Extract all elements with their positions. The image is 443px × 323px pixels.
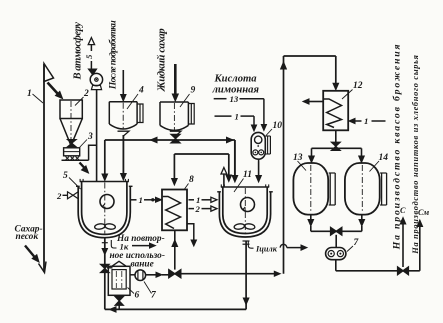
svg-text:3: 3 <box>87 132 93 142</box>
svg-text:14: 14 <box>379 153 389 163</box>
svg-text:песок: песок <box>16 232 39 242</box>
svg-text:7: 7 <box>354 238 360 248</box>
svg-text:2: 2 <box>83 89 89 99</box>
svg-text:1: 1 <box>235 111 239 121</box>
svg-text:Iцилк: Iцилк <box>255 245 278 254</box>
svg-text:1: 1 <box>364 116 368 126</box>
svg-text:Кислота: Кислота <box>214 74 258 85</box>
svg-text:11: 11 <box>243 170 252 180</box>
svg-text:В атмосферу: В атмосферу <box>73 22 84 81</box>
svg-text:На производство квасов брожени: На производство квасов брожения <box>391 43 402 251</box>
svg-text:вание: вание <box>131 260 154 270</box>
svg-text:1: 1 <box>27 89 32 99</box>
svg-text:8: 8 <box>189 175 194 185</box>
svg-text:9: 9 <box>191 86 196 96</box>
svg-text:На производство напитков из хл: На производство напитков из хлебного сыр… <box>411 54 420 254</box>
svg-text:2: 2 <box>56 191 62 201</box>
svg-text:7: 7 <box>151 291 157 301</box>
svg-text:1: 1 <box>139 195 143 205</box>
svg-text:12: 12 <box>353 81 363 91</box>
svg-text:4: 4 <box>138 86 144 96</box>
svg-text:13: 13 <box>230 94 239 104</box>
svg-text:6: 6 <box>135 291 140 301</box>
svg-text:5: 5 <box>84 54 94 59</box>
svg-text:5: 5 <box>63 171 68 181</box>
svg-text:2: 2 <box>195 204 201 214</box>
svg-text:После подработки: После подработки <box>108 21 119 91</box>
svg-text:10: 10 <box>273 121 283 131</box>
svg-text:Жидкий сахар: Жидкий сахар <box>156 28 168 93</box>
